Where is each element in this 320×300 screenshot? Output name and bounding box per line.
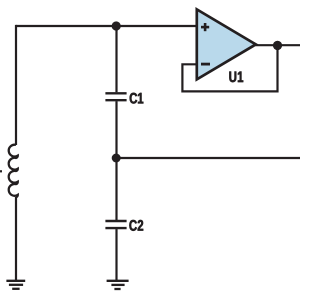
label U1: [229, 72, 243, 83]
ground (center): [107, 281, 129, 289]
wire output horizontal: [254, 44, 300, 46]
node A (junction dot top): [112, 21, 121, 30]
wire middle horizontal to right edge: [117, 157, 301, 159]
wire center vertical middle: [115, 101, 117, 220]
wire stub at left edge: [0, 170, 2, 172]
wire left vertical upper: [15, 25, 17, 145]
inductor: [9, 145, 18, 197]
wire top horizontal: [16, 25, 198, 27]
label C1: [130, 93, 144, 104]
op-amp minus pin mark: [201, 63, 210, 66]
wire center vertical lower: [115, 229, 117, 281]
ground (left): [6, 281, 25, 289]
label C2: [129, 220, 143, 231]
capacitor C1: [105, 93, 126, 100]
capacitor C2: [105, 221, 126, 228]
op-amp U1: [197, 9, 256, 79]
node B (junction dot middle): [112, 154, 121, 163]
node C (output junction dot): [273, 41, 282, 50]
op-amp plus pin mark: [201, 23, 209, 31]
wire feedback loop: [182, 45, 277, 91]
wire left vertical lower: [15, 197, 17, 281]
wire center vertical upper: [115, 26, 117, 92]
